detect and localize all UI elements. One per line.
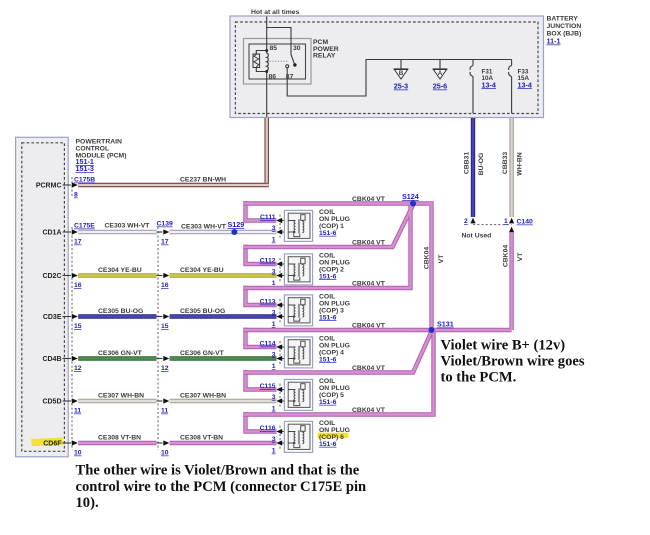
svg-text:2: 2 xyxy=(464,218,468,225)
svg-text:1: 1 xyxy=(272,321,276,328)
svg-text:17: 17 xyxy=(161,239,169,246)
svg-text:3: 3 xyxy=(272,352,276,359)
svg-text:85: 85 xyxy=(270,45,278,52)
svg-text:(COP) 4: (COP) 4 xyxy=(319,349,344,356)
svg-text:1: 1 xyxy=(272,237,276,244)
svg-text:15: 15 xyxy=(161,323,169,330)
svg-text:1: 1 xyxy=(504,218,508,225)
svg-text:11-1: 11-1 xyxy=(547,37,561,46)
svg-text:CD4B: CD4B xyxy=(42,356,61,363)
svg-text:A: A xyxy=(438,70,443,77)
svg-text:Hot at all times: Hot at all times xyxy=(251,9,300,16)
svg-text:CE304 YE-BU: CE304 YE-BU xyxy=(98,267,142,274)
svg-text:C114: C114 xyxy=(260,341,276,348)
svg-text:151-6: 151-6 xyxy=(319,230,337,237)
svg-text:(COP) 2: (COP) 2 xyxy=(319,266,344,273)
svg-text:CE305 BU-OG: CE305 BU-OG xyxy=(180,308,225,315)
svg-text:CE303 WH-VT: CE303 WH-VT xyxy=(181,224,227,231)
svg-text:C175B: C175B xyxy=(74,177,95,184)
svg-text:COIL: COIL xyxy=(319,209,335,216)
svg-text:CBK04: CBK04 xyxy=(503,245,510,268)
svg-text:3: 3 xyxy=(272,394,276,401)
svg-text:ON PLUG: ON PLUG xyxy=(319,259,350,266)
svg-text:(COP) 6: (COP) 6 xyxy=(319,434,344,441)
svg-text:13-4: 13-4 xyxy=(482,80,496,89)
svg-text:C112: C112 xyxy=(260,258,276,265)
svg-text:151-6: 151-6 xyxy=(319,356,337,363)
svg-text:11: 11 xyxy=(74,408,81,415)
svg-text:WH-BN: WH-BN xyxy=(517,152,524,175)
svg-text:3: 3 xyxy=(272,225,276,232)
svg-text:30: 30 xyxy=(293,45,301,52)
svg-text:CONTROL: CONTROL xyxy=(76,146,110,153)
svg-text:CBB33: CBB33 xyxy=(502,152,509,175)
svg-text:B: B xyxy=(399,70,404,77)
svg-text:The other wire is Violet/Brown: The other wire is Violet/Brown and that … xyxy=(76,463,360,479)
svg-text:(COP) 3: (COP) 3 xyxy=(319,307,344,314)
svg-text:to the PCM.: to the PCM. xyxy=(441,369,517,385)
svg-text:C139: C139 xyxy=(157,221,173,228)
svg-text:151-6: 151-6 xyxy=(319,273,337,280)
svg-text:CE307 WH-BN: CE307 WH-BN xyxy=(180,393,226,400)
svg-text:control wire to the PCM (conne: control wire to the PCM (connector C175E… xyxy=(76,479,367,495)
svg-text:CE308 VT-BN: CE308 VT-BN xyxy=(98,435,141,442)
svg-text:3: 3 xyxy=(272,436,276,443)
svg-text:CBB31: CBB31 xyxy=(464,152,471,175)
svg-text:11: 11 xyxy=(161,408,168,415)
svg-text:COIL: COIL xyxy=(319,252,335,259)
svg-text:13-4: 13-4 xyxy=(518,80,532,89)
svg-text:PCRMC: PCRMC xyxy=(36,183,62,190)
svg-text:10: 10 xyxy=(74,450,82,457)
svg-text:CE306 GN-VT: CE306 GN-VT xyxy=(180,350,225,357)
svg-text:C175E: C175E xyxy=(74,223,95,230)
svg-text:CD3E: CD3E xyxy=(43,314,62,321)
svg-text:12: 12 xyxy=(74,365,82,372)
svg-text:Violet/Brown wire goes: Violet/Brown wire goes xyxy=(441,354,585,370)
svg-text:25-6: 25-6 xyxy=(433,82,447,91)
svg-text:CD1A: CD1A xyxy=(42,230,61,237)
svg-text:CE307 WH-BN: CE307 WH-BN xyxy=(98,393,144,400)
svg-text:ON PLUG: ON PLUG xyxy=(319,342,350,349)
svg-text:ON PLUG: ON PLUG xyxy=(319,300,350,307)
svg-text:86: 86 xyxy=(269,74,277,81)
svg-text:15: 15 xyxy=(74,323,82,330)
svg-text:BATTERY: BATTERY xyxy=(547,16,579,23)
svg-text:3: 3 xyxy=(272,269,276,276)
svg-text:Violet wire B+ (12v): Violet wire B+ (12v) xyxy=(441,338,566,354)
svg-text:25-3: 25-3 xyxy=(394,82,408,91)
svg-text:151-6: 151-6 xyxy=(319,399,337,406)
svg-text:S124: S124 xyxy=(402,192,419,201)
svg-text:Not Used: Not Used xyxy=(462,233,492,240)
svg-text:1: 1 xyxy=(272,363,276,370)
svg-text:151-6: 151-6 xyxy=(319,314,337,321)
svg-text:(COP) 5: (COP) 5 xyxy=(319,392,344,399)
svg-text:S129: S129 xyxy=(228,220,245,229)
svg-text:C116: C116 xyxy=(260,425,276,432)
svg-text:S131: S131 xyxy=(437,320,454,329)
svg-text:16: 16 xyxy=(74,282,82,289)
svg-text:CE306 GN-VT: CE306 GN-VT xyxy=(98,350,143,357)
svg-text:CE303 WH-VT: CE303 WH-VT xyxy=(105,223,151,230)
svg-text:CE308 VT-BN: CE308 VT-BN xyxy=(180,435,223,442)
svg-text:VT: VT xyxy=(438,254,445,264)
svg-text:(COP) 1: (COP) 1 xyxy=(319,223,344,230)
svg-text:COIL: COIL xyxy=(319,378,335,385)
svg-text:10: 10 xyxy=(161,450,169,457)
svg-text:12: 12 xyxy=(161,365,169,372)
svg-text:RELAY: RELAY xyxy=(313,53,336,60)
svg-text:CD2C: CD2C xyxy=(42,273,61,280)
svg-text:C113: C113 xyxy=(260,299,276,306)
svg-text:17: 17 xyxy=(74,239,82,246)
svg-text:COIL: COIL xyxy=(319,420,335,427)
svg-text:BU-OG: BU-OG xyxy=(478,153,485,176)
svg-text:JUNCTION: JUNCTION xyxy=(547,23,582,30)
svg-text:ON PLUG: ON PLUG xyxy=(319,385,350,392)
svg-text:COIL: COIL xyxy=(319,293,335,300)
svg-text:CD6F: CD6F xyxy=(43,441,62,448)
svg-text:3: 3 xyxy=(272,310,276,317)
svg-text:ON PLUG: ON PLUG xyxy=(319,216,350,223)
svg-text:10).: 10). xyxy=(76,495,99,511)
svg-text:CBK04: CBK04 xyxy=(423,247,430,270)
svg-text:1: 1 xyxy=(272,406,276,413)
svg-text:151-6: 151-6 xyxy=(319,441,337,448)
svg-text:151-3: 151-3 xyxy=(76,164,94,173)
svg-text:POWERTRAIN: POWERTRAIN xyxy=(76,139,123,146)
svg-text:COIL: COIL xyxy=(319,335,335,342)
svg-text:CE304 YE-BU: CE304 YE-BU xyxy=(180,267,224,274)
svg-text:C140: C140 xyxy=(517,219,533,226)
svg-text:16: 16 xyxy=(161,282,169,289)
svg-text:CE237 BN-WH: CE237 BN-WH xyxy=(180,177,226,184)
svg-text:8: 8 xyxy=(74,192,78,199)
svg-text:CD5D: CD5D xyxy=(42,399,61,406)
svg-text:C111: C111 xyxy=(260,214,276,221)
svg-text:VT: VT xyxy=(517,252,524,262)
svg-text:CE305 BU-OG: CE305 BU-OG xyxy=(98,308,143,315)
svg-text:C115: C115 xyxy=(260,383,276,390)
svg-text:1: 1 xyxy=(272,448,276,455)
